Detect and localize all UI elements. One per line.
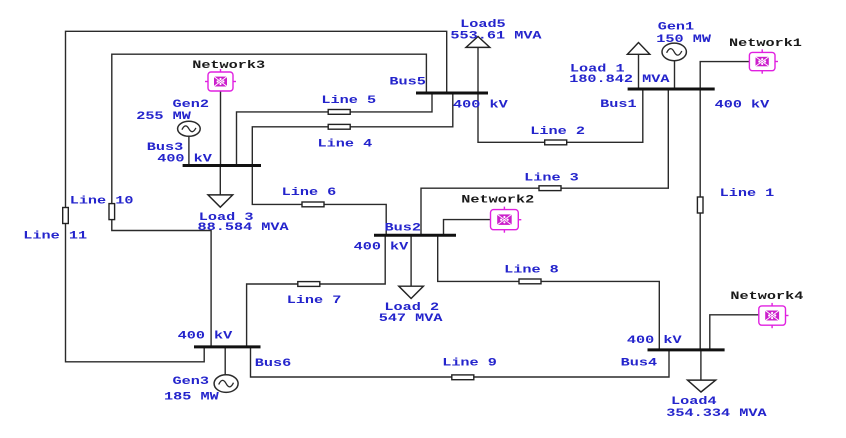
svg-text:Network4: Network4 <box>730 290 803 302</box>
svg-text:Bus2: Bus2 <box>385 221 422 233</box>
svg-text:Bus4: Bus4 <box>621 356 658 368</box>
wire Line 4 path Bus3 to Bus5 <box>252 93 452 166</box>
line symbol Line 4 <box>328 124 350 129</box>
wire Line 11 path Bus6 to Bus5 <box>66 31 447 362</box>
line symbol Line 8 <box>519 279 541 284</box>
svg-text:Line 5: Line 5 <box>321 94 376 106</box>
wire Load 2 stem <box>410 235 412 286</box>
load Load4 arrow <box>688 380 716 392</box>
wire Line 5 path Bus3 to Bus5 <box>237 93 433 166</box>
network block Network4 <box>759 303 789 328</box>
wire Line 2 path Bus5 to Bus1 <box>478 89 643 142</box>
line symbol Line 9 <box>452 375 474 380</box>
svg-text:255 MW: 255 MW <box>136 110 191 122</box>
wire Line 10 path Bus6 to Bus5 <box>112 54 427 347</box>
svg-text:Gen2: Gen2 <box>173 98 210 110</box>
svg-text:553.61 MVA: 553.61 MVA <box>450 30 541 42</box>
svg-text:Load5: Load5 <box>460 18 506 30</box>
bus Bus4 <box>648 348 725 351</box>
wire Gen2 stem <box>188 136 190 165</box>
line symbol Line 10 <box>109 204 115 220</box>
network block Network2 <box>491 207 522 233</box>
bus Bus6 <box>194 345 261 348</box>
line symbol Line 5 <box>328 110 350 115</box>
line symbol Line 6 <box>302 202 324 207</box>
wire Line 7 path Bus2 to Bus6 <box>247 235 386 347</box>
svg-text:Line 7: Line 7 <box>287 294 342 306</box>
svg-text:547 MVA: 547 MVA <box>379 312 443 324</box>
svg-text:185 MW: 185 MW <box>164 390 219 402</box>
svg-text:Network2: Network2 <box>461 193 534 205</box>
svg-text:Bus3: Bus3 <box>147 141 184 153</box>
line symbol Line 2 <box>545 140 567 145</box>
wire Gen1 stem <box>674 60 676 89</box>
svg-text:Bus1: Bus1 <box>600 98 637 110</box>
generator Gen1 <box>662 43 686 61</box>
wire Line 1 path Bus1 to Bus4 <box>699 89 701 350</box>
line symbol Line 11 <box>63 208 69 224</box>
wire Load4 stem <box>700 350 702 380</box>
load Load5 arrow <box>466 37 490 48</box>
svg-text:400 kV: 400 kV <box>157 152 212 164</box>
svg-text:Line 2: Line 2 <box>530 125 585 137</box>
svg-text:400 kV: 400 kV <box>178 330 233 342</box>
line symbol Line 3 <box>539 186 561 191</box>
bus Bus5 <box>416 92 488 95</box>
line symbol Line 7 <box>298 282 320 287</box>
network block Network3 <box>205 69 236 91</box>
svg-text:400 kV: 400 kV <box>453 99 508 111</box>
svg-text:Network1: Network1 <box>729 37 802 49</box>
wire Network3 stem <box>220 91 222 166</box>
wire Network4 connection <box>710 315 759 350</box>
svg-text:88.584 MVA: 88.584 MVA <box>198 221 289 233</box>
wire Line 8 path Bus2 to Bus4 <box>438 235 660 350</box>
svg-text:Gen3: Gen3 <box>173 375 210 387</box>
svg-text:Line 10: Line 10 <box>70 194 134 206</box>
svg-text:Bus5: Bus5 <box>389 75 426 87</box>
svg-text:Network3: Network3 <box>192 59 265 71</box>
wire Load 3 stem <box>219 166 221 195</box>
wire Load5 stem <box>477 47 479 93</box>
wire Gen3 stem <box>224 347 226 375</box>
wire Line 3 path Bus2 to Bus1 <box>421 89 668 235</box>
svg-text:150 MW: 150 MW <box>656 33 711 45</box>
svg-text:Line 1: Line 1 <box>720 187 775 199</box>
wire Load 1 stem <box>638 54 640 89</box>
load Load 1 arrow <box>627 43 649 55</box>
svg-text:400 kV: 400 kV <box>715 98 770 110</box>
svg-text:Bus6: Bus6 <box>255 357 292 369</box>
svg-text:Line 4: Line 4 <box>318 137 373 149</box>
svg-text:400 kV: 400 kV <box>627 334 682 346</box>
generator Gen3 <box>214 375 238 393</box>
wire Line 9 path Bus6 to Bus4 <box>251 347 670 377</box>
generator Gen2 <box>178 121 201 136</box>
load Load 3 arrow <box>208 195 233 207</box>
svg-text:Load4: Load4 <box>671 395 717 407</box>
svg-text:Line 8: Line 8 <box>504 263 559 275</box>
svg-text:Line 9: Line 9 <box>442 357 497 369</box>
line symbol Line 1 <box>697 197 703 213</box>
wire Network1 connection <box>700 62 749 89</box>
load Load 2 arrow <box>399 286 424 298</box>
svg-text:Line 3: Line 3 <box>524 171 579 183</box>
svg-text:354.334 MVA: 354.334 MVA <box>666 407 766 419</box>
svg-text:Gen1: Gen1 <box>658 20 695 32</box>
svg-text:400 kV: 400 kV <box>354 241 409 253</box>
bus Bus2 <box>374 234 456 237</box>
svg-text:Line 11: Line 11 <box>23 229 87 241</box>
svg-text:Line 6: Line 6 <box>282 186 337 198</box>
bus Bus1 <box>628 88 715 91</box>
svg-text:180.842 MVA: 180.842 MVA <box>569 73 669 85</box>
wire Line 6 path Bus3 to Bus2 <box>252 166 386 236</box>
bus Bus3 <box>183 164 261 167</box>
wire Network2 connection <box>444 220 491 236</box>
network block Network1 <box>749 49 778 73</box>
